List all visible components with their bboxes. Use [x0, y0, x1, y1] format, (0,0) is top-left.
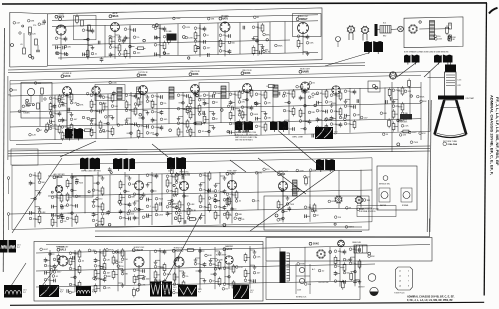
label 750K: [296, 85, 305, 88]
label 2.2K: [236, 266, 244, 269]
resistor R: [182, 282, 185, 288]
wire CRT neck lead: [450, 63, 452, 65]
wire stage vertical: [97, 172, 99, 226]
node crt drive: [372, 84, 375, 87]
resistor R: [229, 113, 232, 119]
label 150: [434, 35, 441, 38]
svg-text:.0047: .0047: [178, 182, 184, 184]
capacitor C: [52, 205, 54, 209]
ground: [154, 260, 158, 264]
capacitor C: [390, 97, 392, 101]
label 750K: [173, 17, 182, 20]
capacitor C: [75, 178, 79, 183]
tube V3b: [336, 37, 341, 42]
wire callout diagonal 9: [230, 160, 246, 172]
resistor R: [244, 271, 247, 277]
node antenna: [11, 44, 14, 47]
capacitor C: [142, 192, 146, 197]
power interior parts: [296, 264, 316, 294]
node: [130, 132, 132, 134]
capacitor C: [260, 51, 262, 55]
wire row D mid line: [36, 264, 375, 271]
label 68K: [235, 213, 242, 216]
capacitor C: [58, 111, 62, 116]
wire crt vertical B: [420, 82, 422, 140]
label 6.8K: [38, 211, 46, 214]
label 10K: [297, 35, 304, 38]
resistor R: [194, 33, 197, 39]
resistor R7: [81, 20, 84, 26]
label 150: [117, 265, 124, 268]
wire right vertical pair A: [427, 100, 428, 232]
label 1K: [203, 34, 209, 37]
label 5%: [55, 37, 61, 40]
label 150: [339, 116, 346, 119]
label 120K: [185, 36, 194, 39]
capacitor C: [108, 167, 112, 172]
resistor R: [49, 104, 52, 110]
capacitor C: [326, 110, 328, 114]
resistor R: [119, 194, 122, 200]
svg-text:100K: 100K: [218, 260, 223, 262]
resistor R: [343, 264, 346, 270]
capacitor C: [45, 271, 47, 275]
wire row D vertical: [174, 250, 176, 284]
horizontal sweep inner top line: [46, 244, 263, 246]
label 2.2K: [118, 53, 126, 56]
label .047: [99, 130, 107, 133]
svg-text:6AL5: 6AL5: [60, 249, 67, 252]
resistor R: [112, 272, 115, 278]
capacitor C: [67, 289, 69, 293]
resistor R: [137, 99, 140, 105]
resistor R: [78, 251, 81, 257]
svg-text:47: 47: [40, 130, 42, 132]
svg-text:2.2K: 2.2K: [106, 287, 111, 289]
label 1K: [255, 125, 261, 128]
svg-text:YOKE PLUG: YOKE PLUG: [394, 293, 405, 295]
resistor R: [208, 204, 211, 210]
node: [32, 57, 34, 59]
label 150: [334, 280, 341, 283]
label 68K: [223, 267, 230, 270]
resistor R: [392, 124, 395, 130]
resistor R: [151, 101, 154, 107]
capacitor C: [98, 41, 100, 45]
handwritten page mark: [489, 8, 498, 14]
resistor R: [292, 108, 295, 114]
resistor R: [119, 182, 122, 188]
ground: [209, 258, 213, 262]
wire IF vertical: [246, 91, 248, 123]
capacitor C: [109, 52, 113, 57]
resistor R: [58, 96, 61, 102]
resistor R: [264, 92, 267, 98]
node: [59, 18, 62, 21]
wire stage vertical: [183, 192, 185, 224]
label 560: [29, 174, 36, 177]
ground: [146, 95, 150, 99]
wire audio vertical: [199, 23, 201, 55]
node: [151, 190, 153, 192]
resistor R: [187, 208, 190, 214]
wire stage vertical: [138, 267, 140, 291]
ground: [101, 176, 105, 180]
transformer T7 yoke horiz: [404, 55, 420, 65]
svg-text:390K: 390K: [420, 96, 425, 98]
tube V24: [368, 274, 376, 282]
wire stage vertical: [208, 92, 210, 136]
label 10K: [111, 105, 118, 108]
node: [188, 57, 190, 59]
label 3.3K: [154, 250, 162, 253]
node: [221, 109, 224, 112]
ground: [38, 207, 42, 211]
label 12K: [70, 101, 77, 104]
label 68K: [119, 216, 126, 219]
coil output cylinder: [375, 24, 392, 36]
wire stage vertical: [66, 93, 68, 140]
wire stage vertical: [199, 247, 201, 290]
resistor R: [218, 279, 221, 285]
wire IF vertical: [116, 93, 118, 125]
svg-text:CANDOHM: CANDOHM: [352, 241, 361, 244]
svg-text:5%: 5%: [185, 276, 188, 278]
svg-text:.0047: .0047: [145, 278, 151, 280]
ground: [121, 268, 125, 272]
resistor R: [186, 107, 189, 113]
label 150: [96, 198, 103, 201]
label 10K: [101, 213, 108, 216]
IF transformer box 2: [199, 83, 229, 99]
label .02: [78, 259, 85, 262]
label 470: [128, 210, 135, 213]
label 82: [69, 291, 75, 294]
label 47K: [419, 132, 426, 135]
label 68K: [209, 263, 216, 266]
node: [74, 276, 76, 278]
label 150: [349, 262, 356, 265]
volume control block: [167, 34, 177, 41]
tube socket X1: [347, 25, 355, 33]
wire row C vertical: [257, 172, 259, 210]
ground: [358, 280, 362, 284]
label 5%: [134, 208, 140, 211]
node: [34, 198, 36, 200]
wire row C vertical: [84, 175, 86, 213]
label 5%: [309, 82, 315, 85]
label 120K: [238, 130, 247, 133]
node: [329, 251, 332, 254]
resistor R: [293, 189, 299, 192]
resistor R: [196, 122, 202, 125]
resistor R: [175, 174, 178, 180]
waveform photo W10: [150, 282, 161, 297]
resistor R: [163, 43, 166, 49]
node: [118, 200, 121, 203]
tube V20 12AU7: [132, 247, 145, 267]
wire row C vertical: [309, 171, 311, 209]
label 390K: [166, 206, 175, 209]
label .0047: [142, 277, 151, 280]
label 750K: [198, 113, 207, 116]
label 470: [61, 95, 68, 98]
svg-text:2.2K: 2.2K: [32, 135, 37, 137]
wire row D vertical: [74, 252, 76, 286]
resistor R: [38, 216, 41, 222]
node: [32, 104, 34, 106]
coil L6: [293, 180, 298, 196]
label 5%: [90, 94, 96, 97]
label 82: [203, 94, 209, 97]
agc sub box: [264, 196, 369, 230]
label 4.7K: [178, 209, 186, 212]
label 33K: [401, 112, 408, 115]
transformer T9 power: [280, 252, 290, 284]
resistor R: [305, 178, 308, 184]
svg-text:2.2K: 2.2K: [118, 252, 123, 254]
label 5%: [401, 119, 407, 122]
resistor R: [86, 51, 89, 57]
wire stage vertical: [288, 90, 290, 134]
resistor R: [101, 188, 104, 194]
capacitor C: [61, 118, 65, 123]
resistor R: [277, 202, 280, 208]
capacitor C: [214, 198, 218, 203]
resistor R: [186, 121, 189, 127]
resistor R: [228, 198, 231, 204]
wire stage vertical: [335, 92, 337, 133]
label .005: [173, 283, 181, 286]
svg-text:ADMIRAL CHASSIS 20Y4B, BF, C,: ADMIRAL CHASSIS 20Y4B, BF, C, E, EF, F,: [489, 95, 494, 175]
wire IF vertical: [359, 88, 361, 120]
resistor R: [124, 50, 127, 56]
ground: [70, 112, 74, 116]
service switch tube box A: [379, 188, 390, 202]
tube V12 6BH8: [53, 173, 65, 193]
resistor R: [339, 109, 342, 115]
transformer T10 width coil: [235, 121, 253, 132]
resistor R: [103, 264, 106, 270]
ground: [199, 183, 203, 187]
capacitor C: [203, 101, 207, 106]
wire stage vertical: [74, 250, 76, 292]
label 27K: [309, 169, 316, 172]
label 150: [112, 251, 119, 254]
ground: [264, 112, 268, 116]
resistor R: [408, 80, 411, 86]
capacitor C: [166, 211, 170, 216]
svg-text:6AT6: 6AT6: [222, 17, 228, 20]
ground: [38, 191, 42, 195]
node: [304, 128, 306, 130]
capacitor C: [155, 53, 157, 57]
tube V22 6AX4: [223, 245, 234, 264]
label 1MEG: [229, 122, 238, 125]
wire audio vertical: [284, 22, 286, 54]
svg-text:1B3GT: 1B3GT: [358, 287, 365, 289]
tube V10B: [332, 86, 340, 94]
label .02: [318, 269, 325, 272]
wire stage vertical: [129, 26, 131, 59]
resistor R: [189, 129, 192, 135]
capacitor C: [345, 114, 347, 118]
svg-text:o2: o2: [399, 276, 401, 278]
wire stage vertical: [114, 31, 116, 59]
waveform photo W13: [233, 285, 254, 300]
IF transformer box 1: [95, 85, 125, 101]
svg-text:3.3K: 3.3K: [309, 43, 314, 45]
part under tuner A: [37, 129, 40, 132]
svg-text:F, FE, J, L, LA, LF, LS, MS, N: F, FE, J, L, LA, LF, LS, MS, NF, PBS, BF: [407, 299, 453, 302]
svg-text:BLU: BLU: [383, 23, 386, 25]
resistor R: [38, 173, 41, 179]
wire row D vertical: [99, 252, 101, 286]
label 33K: [214, 205, 221, 208]
resistor R: [112, 257, 115, 263]
label 1K: [187, 108, 193, 111]
tube V7 6CB6: [137, 72, 148, 95]
capacitor C: [56, 46, 58, 50]
resistor R6: [449, 35, 452, 41]
label .1: [146, 205, 152, 208]
node: [227, 131, 229, 133]
resistor R1b: [23, 48, 26, 54]
label 120K: [316, 109, 325, 112]
resistor R2: [35, 39, 38, 45]
ground: [128, 176, 132, 180]
node: [304, 105, 306, 107]
wire stage vertical: [159, 25, 161, 58]
label 5%: [194, 263, 200, 266]
capacitor C: [250, 105, 254, 110]
node: [183, 195, 185, 197]
svg-text:6BA6: 6BA6: [112, 15, 119, 18]
ground: [238, 109, 242, 113]
svg-text:A.C.: A.C.: [312, 268, 316, 271]
label .1: [186, 130, 192, 133]
label 100K: [215, 259, 224, 262]
node: [56, 52, 59, 55]
wire callout diagonal 3: [11, 263, 26, 286]
capacitor C: [208, 53, 210, 57]
ground: [306, 52, 310, 56]
resistor candohm: [354, 245, 367, 253]
tube socket X3: [408, 24, 417, 33]
label 5%: [100, 266, 106, 269]
ground: [261, 44, 265, 48]
wire horiz line: [36, 245, 430, 254]
resistor R: [66, 194, 69, 200]
label 6.8K: [187, 203, 195, 206]
wire stage vertical: [249, 246, 251, 289]
svg-text:6CB6: 6CB6: [140, 74, 147, 77]
label 5%: [255, 93, 261, 96]
label 560: [61, 126, 68, 129]
wire stage vertical: [234, 91, 236, 136]
node: [194, 122, 196, 124]
label 33K: [69, 283, 76, 286]
wire stage vertical: [194, 90, 196, 137]
label .047: [70, 118, 78, 121]
capacitor C: [343, 249, 347, 254]
wire audio vertical: [159, 24, 161, 56]
capacitor C: [29, 181, 33, 186]
capacitor C: [232, 107, 234, 111]
node: [66, 53, 68, 55]
ground: [92, 200, 96, 204]
label .047: [13, 22, 21, 25]
capacitor C: [334, 271, 338, 276]
label 100K: [250, 113, 259, 116]
wire audio plate line: [52, 21, 318, 27]
svg-text:750K: 750K: [176, 18, 181, 20]
label 120K: [90, 110, 99, 113]
label 18K: [264, 117, 271, 120]
capacitor C: [177, 258, 179, 262]
svg-text:750K: 750K: [289, 204, 294, 206]
waveform photo W6: [9, 240, 22, 253]
svg-text:5%: 5%: [163, 103, 166, 105]
svg-text:6.8K: 6.8K: [145, 217, 150, 219]
waveform photo W4: [315, 127, 338, 139]
resistor R: [69, 259, 72, 265]
wire audio mid line: [52, 40, 290, 45]
resistor R: [138, 275, 144, 278]
capacitor C: [30, 211, 32, 215]
label 390K: [299, 120, 308, 123]
capacitor C: [301, 88, 305, 93]
wire audio vertical: [129, 25, 131, 57]
wire stage vertical: [257, 24, 259, 56]
label .047: [238, 113, 246, 116]
svg-text:21ALP4A: 21ALP4A: [448, 143, 458, 146]
svg-text:3.3K: 3.3K: [451, 39, 456, 41]
resistor R: [66, 181, 69, 187]
resistor R: [226, 199, 229, 205]
label 68K: [133, 269, 140, 272]
wire callout diagonal 10: [60, 141, 96, 157]
label 150: [344, 122, 351, 125]
resistor R: [75, 216, 78, 222]
svg-text:1MEG: 1MEG: [98, 225, 104, 227]
wire row C vertical: [282, 171, 284, 209]
node: [139, 113, 142, 116]
svg-text:.05: .05: [20, 44, 23, 46]
label .005: [53, 287, 61, 290]
ground: [90, 118, 94, 122]
label 470: [238, 101, 245, 104]
ground: [283, 120, 287, 124]
label 47K: [77, 103, 84, 106]
svg-text:.0047: .0047: [21, 111, 27, 113]
ac line corner box: [11, 149, 38, 165]
audio section box: [48, 8, 323, 66]
resistor R: [102, 104, 105, 110]
label 12K: [399, 134, 406, 137]
label 68K: [380, 112, 387, 115]
coil L1: [430, 21, 435, 40]
wire stage vertical: [304, 88, 306, 134]
capacitor C: [353, 89, 357, 94]
coil L5: [273, 85, 278, 97]
capacitor C: [204, 40, 206, 44]
label 5%: [154, 44, 160, 47]
ground: [146, 183, 150, 187]
transformer T3 discriminator: [113, 158, 135, 171]
label 750K: [118, 39, 127, 42]
resistor R: [350, 274, 353, 280]
